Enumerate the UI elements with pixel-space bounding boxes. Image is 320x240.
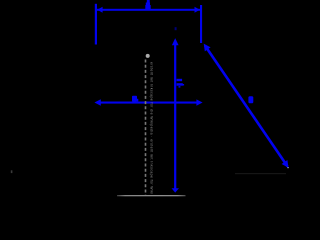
tiny faint mark lower-left [11,170,13,173]
label z (vertical arrow) [177,79,184,88]
vertical arrow bottom arrowhead [172,188,180,192]
dashed rod line [145,60,147,196]
horizontal double arrow line [99,102,198,104]
faint stub above vertical arrow [175,27,177,30]
diagonal bottom arrowhead [282,160,289,168]
top dimension left arrowhead [97,7,102,13]
diagonal top arrowhead [204,44,211,52]
label lambda (top, cropped) [145,0,150,9]
vertical arrow top arrowhead [172,38,179,45]
label a (horizontal arrow) [132,96,138,102]
left end-bar of top dimension [95,4,97,45]
faint lower-right line [235,173,286,174]
svg-text:erstellt mit Inkscape für die: erstellt mit Inkscape für die Wikipedia … [150,62,154,194]
label B (diagonal) [248,96,253,103]
right end-bar of top dimension [200,5,202,43]
light pixel at diagonal tip [287,167,288,168]
vertical double arrow line [174,44,176,190]
top dimension line [97,9,200,11]
diagonal double arrow line [205,46,288,167]
horizontal arrow right arrowhead [196,99,202,105]
ball on top of rod [146,54,150,58]
horizontal arrow left arrowhead [94,99,100,106]
top dimension right arrowhead [195,7,200,13]
